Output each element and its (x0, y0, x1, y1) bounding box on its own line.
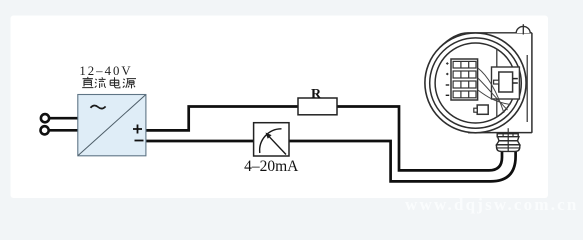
svg-text:R: R (311, 87, 322, 102)
meter needle (267, 134, 286, 154)
terminal row 1 (453, 61, 476, 68)
internal wire 1 (478, 68, 504, 113)
terminal row 4 (453, 91, 476, 98)
power supply diagonal (78, 95, 145, 155)
housing inner vertical line (526, 55, 528, 122)
middle ring (430, 38, 522, 128)
plus sign (133, 125, 142, 134)
hanzi 电 (110, 77, 120, 88)
terminal circle lower (41, 126, 49, 134)
wire from supply + terminal up and right through R, down and to cable (conductor 1) (146, 107, 502, 171)
wire terminal2 to supply (49, 129, 78, 132)
cable gland top plate (497, 134, 518, 137)
inner ring (435, 43, 516, 123)
resistor R (298, 98, 337, 115)
power supply box 12-40V (78, 95, 146, 156)
wire terminal1 to supply (49, 117, 77, 120)
hanzi 源 (123, 79, 136, 89)
white diagram panel (11, 16, 549, 199)
housing right edge (531, 33, 533, 133)
marker dash row3 (446, 84, 450, 86)
conduit centre line (507, 128, 509, 134)
marker diamond row1 (446, 62, 449, 65)
module left pin square (494, 80, 499, 84)
gland bottom inner line (497, 147, 520, 149)
svg-text:www.dqjsw.com.cn: www.dqjsw.com.cn (405, 195, 579, 214)
cable gland bottom (497, 145, 520, 152)
screw slot (522, 24, 524, 34)
housing bottom line (468, 132, 532, 134)
screw dome on cap (516, 26, 530, 33)
wire from supply - terminal through meter, down and to cable (conductor 2) (146, 141, 516, 181)
marker dash row4 (446, 94, 450, 96)
outer circle of housing (425, 33, 526, 133)
AC tilde symbol (91, 105, 106, 108)
transmitter housing side strip top line (440, 33, 532, 48)
cable gland band 3 (497, 141, 520, 145)
module right pin 1 (513, 78, 518, 80)
terminal row 2 (453, 71, 476, 78)
electronics module box (499, 72, 513, 92)
gland centre slot (507, 137, 509, 152)
electronics bracket (492, 67, 520, 99)
needle arrowhead (266, 133, 272, 139)
terminal block (451, 59, 478, 100)
terminal row 3 (453, 81, 476, 88)
marker diamond row2 (446, 73, 449, 76)
internal wire 3 (478, 90, 511, 105)
hanzi 流 (95, 77, 106, 88)
minus sign (135, 140, 144, 142)
module right pin 2 (513, 82, 518, 84)
gland plate slots (503, 134, 513, 137)
jumper nub (474, 108, 477, 112)
svg-text:12–40V: 12–40V (79, 64, 132, 78)
meter scale arc (260, 129, 282, 153)
cable gland band 2 (498, 137, 519, 141)
hanzi 直 (82, 77, 93, 88)
partition line inside housing (496, 49, 498, 118)
terminal circle upper (41, 114, 49, 122)
jumper connector (477, 105, 488, 114)
ammeter 4-20mA box (254, 123, 289, 156)
internal wire 2 (478, 78, 508, 110)
svg-text:4–20mA: 4–20mA (244, 158, 299, 175)
